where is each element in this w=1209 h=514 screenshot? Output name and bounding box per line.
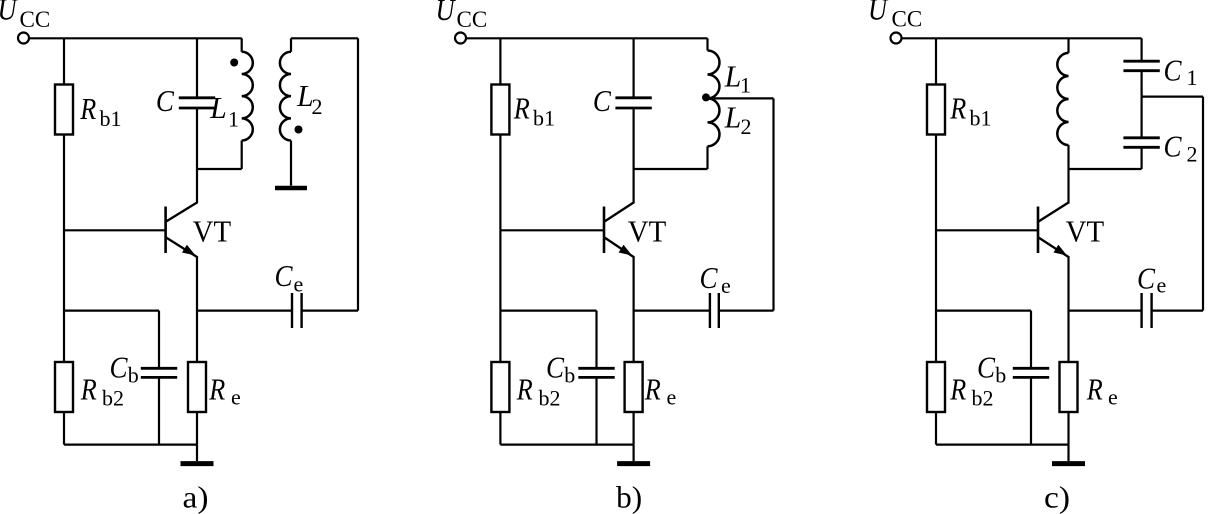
svg-text:R: R xyxy=(644,372,661,407)
svg-text:2: 2 xyxy=(741,114,752,139)
transistor VT (b) xyxy=(604,203,634,258)
wire top rail (b) xyxy=(467,37,708,39)
label VT (b) xyxy=(628,214,667,248)
label Re (b) xyxy=(644,372,676,410)
svg-text:e: e xyxy=(231,385,241,410)
terminal U_CC (c) xyxy=(891,33,902,44)
svg-text:C: C xyxy=(700,260,718,295)
inductor L1 L2 tapped (b) xyxy=(708,38,720,169)
svg-text:R: R xyxy=(516,372,533,407)
svg-text:R: R xyxy=(949,91,966,126)
label C (a) xyxy=(156,83,174,118)
wire base (b) xyxy=(500,229,604,231)
label Ce (c) xyxy=(1137,261,1166,298)
svg-text:VT: VT xyxy=(628,214,667,248)
svg-text:CC: CC xyxy=(457,7,488,32)
svg-text:a): a) xyxy=(183,480,209,514)
svg-text:b2: b2 xyxy=(102,385,124,410)
wire Re bottom (c) xyxy=(1067,412,1069,445)
svg-text:C: C xyxy=(275,258,293,293)
ground main (c) xyxy=(1052,445,1085,464)
capacitor C1 (c) xyxy=(1123,38,1159,96)
label Rb1 (a) xyxy=(79,91,121,131)
wire left column (c) xyxy=(935,38,937,362)
svg-text:U: U xyxy=(436,0,457,27)
svg-text:C: C xyxy=(546,350,564,385)
label a) xyxy=(183,480,209,514)
wire Rb2 bottom (b) xyxy=(499,412,501,445)
wire top rail L2 segment (a) xyxy=(291,37,358,39)
svg-text:U: U xyxy=(0,0,19,27)
terminal U_CC (a) xyxy=(18,33,29,44)
label VT (a) xyxy=(193,214,232,248)
wire tank bottom (b) xyxy=(634,168,708,170)
svg-text:2: 2 xyxy=(1187,142,1198,167)
wire emitter (b) xyxy=(632,256,634,362)
wire right branch (c) xyxy=(1202,97,1204,311)
wire base (c) xyxy=(936,229,1038,231)
ground main (b) xyxy=(617,445,650,464)
svg-text:b1: b1 xyxy=(100,106,122,131)
svg-text:R: R xyxy=(79,91,96,126)
capacitor Ce (a) xyxy=(292,293,302,328)
svg-text:e: e xyxy=(1157,273,1167,298)
wire emitter (a) xyxy=(196,256,198,362)
svg-text:CC: CC xyxy=(892,7,923,32)
svg-text:R: R xyxy=(1086,372,1103,407)
wire collector (a) xyxy=(196,169,198,204)
resistor Rb1 (a) xyxy=(55,85,73,135)
label Ce (a) xyxy=(275,258,304,297)
resistor Re (b) xyxy=(625,362,643,412)
capacitor C (b) xyxy=(615,38,651,169)
wire collector (c) xyxy=(1067,169,1069,204)
wire tank bottom (a) xyxy=(197,168,242,170)
label L1 (a) xyxy=(209,90,239,132)
svg-text:R: R xyxy=(949,372,966,407)
label Rb1 (b) xyxy=(513,91,555,131)
svg-text:1: 1 xyxy=(228,107,239,132)
svg-text:e: e xyxy=(1108,385,1118,410)
wire emitter node (b) xyxy=(634,310,710,312)
wire Re bottom (a) xyxy=(196,412,198,445)
inductor L (c) xyxy=(1057,38,1068,169)
capacitor Cb (a) xyxy=(141,368,177,377)
transistor VT (a) xyxy=(166,203,197,258)
label Re (a) xyxy=(208,372,240,410)
svg-text:c): c) xyxy=(1044,480,1070,514)
svg-text:C: C xyxy=(593,83,611,118)
resistor Rb1 (b) xyxy=(491,85,509,135)
label Rb2 (b) xyxy=(516,372,561,411)
wire Re bottom (b) xyxy=(632,412,634,445)
svg-text:1: 1 xyxy=(1187,65,1198,90)
svg-text:e: e xyxy=(721,273,731,298)
svg-text:C: C xyxy=(1164,129,1182,164)
svg-text:VT: VT xyxy=(1066,214,1105,248)
label U_CC (c) xyxy=(868,0,922,32)
svg-text:e: e xyxy=(667,385,677,410)
label Cb (c) xyxy=(977,350,1006,388)
svg-text:L: L xyxy=(209,90,226,125)
label Rb2 (c) xyxy=(949,372,993,411)
svg-text:b): b) xyxy=(616,480,642,514)
svg-text:U: U xyxy=(868,0,889,27)
wire bottom rail (b) xyxy=(500,444,633,446)
svg-text:C: C xyxy=(156,83,174,118)
wire top rail (c) xyxy=(903,37,1142,39)
svg-text:b1: b1 xyxy=(533,106,555,131)
label U_CC (a) xyxy=(0,0,50,32)
capacitor Cb (c) xyxy=(1013,368,1049,377)
capacitor C2 (c) xyxy=(1123,97,1159,169)
wire bottom rail (c) xyxy=(936,444,1069,446)
resistor Rb1 (c) xyxy=(927,85,945,135)
svg-text:b: b xyxy=(995,363,1006,388)
label c) xyxy=(1044,480,1070,514)
svg-text:R: R xyxy=(80,372,97,407)
dot L2 polarity (a) xyxy=(295,126,303,134)
wire left column (a) xyxy=(63,38,65,362)
resistor Rb2 (b) xyxy=(491,362,509,412)
svg-text:L: L xyxy=(724,100,741,135)
wire Cb branch (a) xyxy=(64,311,159,445)
svg-text:R: R xyxy=(513,91,530,126)
label Ce (b) xyxy=(700,260,731,298)
label C1 (c) xyxy=(1164,52,1198,90)
svg-text:C: C xyxy=(1164,52,1182,87)
wire right branch (b) xyxy=(772,98,774,310)
svg-text:2: 2 xyxy=(312,94,323,119)
svg-text:b2: b2 xyxy=(972,385,994,410)
resistor Re (c) xyxy=(1060,362,1078,412)
terminal U_CC (b) xyxy=(455,33,466,44)
label b) xyxy=(616,480,642,514)
wire left column (b) xyxy=(499,38,501,362)
label Cb (b) xyxy=(546,350,575,388)
wire top rail (a) xyxy=(30,37,242,39)
svg-text:CC: CC xyxy=(20,7,51,32)
label C2 (c) xyxy=(1164,129,1198,167)
svg-text:b1: b1 xyxy=(970,106,992,131)
label VT (c) xyxy=(1066,214,1105,248)
wire base (a) xyxy=(64,229,166,231)
label L2 (b) xyxy=(724,100,752,139)
label U_CC (b) xyxy=(436,0,488,32)
svg-text:VT: VT xyxy=(193,214,232,248)
resistor Re (a) xyxy=(188,362,206,412)
ground L2 (a) xyxy=(275,141,307,189)
svg-text:L: L xyxy=(724,59,741,94)
svg-text:b: b xyxy=(564,363,575,388)
label Rb2 (a) xyxy=(80,372,124,411)
wire Ce to right branch (b) xyxy=(719,310,774,312)
svg-text:b2: b2 xyxy=(539,385,561,410)
label L1 (b) xyxy=(724,59,751,98)
svg-text:C: C xyxy=(1137,261,1155,296)
svg-text:1: 1 xyxy=(740,73,751,98)
wire Rb2 bottom (c) xyxy=(935,412,937,445)
svg-text:e: e xyxy=(294,271,304,296)
label Cb (a) xyxy=(110,350,139,388)
wire bottom rail (a) xyxy=(64,444,197,446)
svg-text:b: b xyxy=(128,363,139,388)
inductor L2 (a) xyxy=(280,38,291,140)
svg-text:C: C xyxy=(110,350,128,385)
wire emitter node (a) xyxy=(197,310,292,312)
capacitor Cb (b) xyxy=(578,368,614,377)
label Re (c) xyxy=(1086,372,1118,410)
dot L1 polarity (a) xyxy=(230,59,238,67)
capacitor C (a) xyxy=(179,38,215,169)
label C (b) xyxy=(593,83,611,118)
resistor Rb2 (a) xyxy=(55,362,73,412)
wire emitter node (c) xyxy=(1069,310,1142,312)
wire Ce to right branch (c) xyxy=(1152,310,1203,312)
wire collector (b) xyxy=(632,169,634,204)
ground main (a) xyxy=(181,445,214,464)
label L2 (a) xyxy=(296,78,322,119)
node C1-C2 wire (c) xyxy=(1142,95,1203,97)
inductor L1 (a) xyxy=(242,38,253,169)
wire emitter (c) xyxy=(1067,256,1069,362)
wire tank bottom (c) xyxy=(1069,168,1142,170)
wire Cb branch (b) xyxy=(500,311,596,445)
dot tap polarity (b) xyxy=(702,93,710,101)
wire Rb2 bottom (a) xyxy=(63,412,65,445)
wire Cb branch (c) xyxy=(936,311,1031,445)
wire Ce to right branch (a) xyxy=(302,310,358,312)
transistor VT (c) xyxy=(1038,203,1069,258)
resistor Rb2 (c) xyxy=(927,362,945,412)
wire right branch (a) xyxy=(357,38,359,310)
wire tap (b) xyxy=(708,97,774,99)
capacitor Ce (b) xyxy=(710,293,719,328)
label Rb1 (c) xyxy=(949,91,991,131)
capacitor Ce (c) xyxy=(1142,293,1152,328)
svg-text:C: C xyxy=(977,350,995,385)
svg-text:R: R xyxy=(208,372,225,407)
